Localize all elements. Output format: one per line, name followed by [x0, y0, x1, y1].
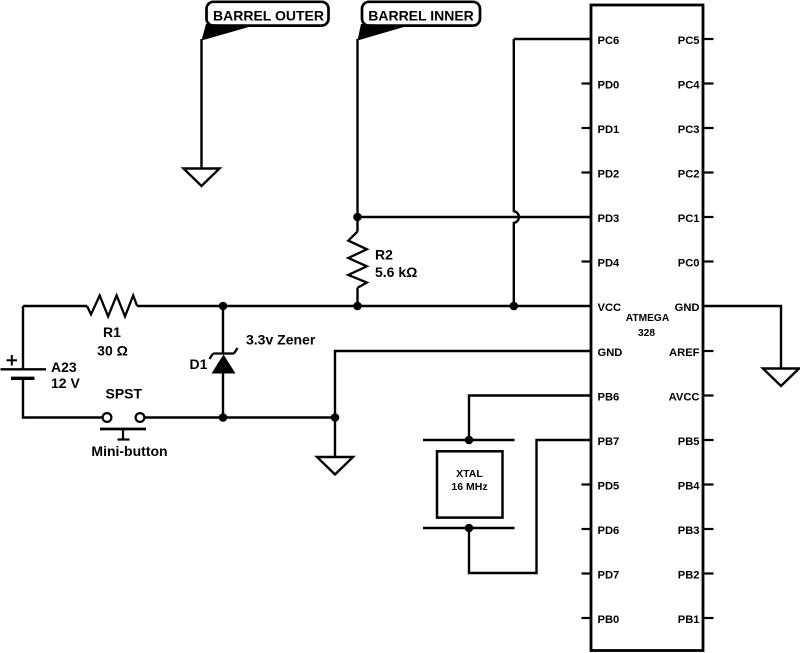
ground (middle) — [317, 457, 353, 475]
svg-text:PC6: PC6 — [598, 35, 620, 47]
svg-text:SPST: SPST — [106, 386, 143, 402]
pin PB3 stub — [703, 528, 714, 530]
svg-text:PD5: PD5 — [598, 481, 620, 493]
wire switch to D1 bottom and GND node — [145, 416, 336, 418]
crystal XTAL — [423, 436, 515, 533]
svg-text:PD7: PD7 — [598, 570, 620, 582]
ground (barrel outer) — [184, 169, 220, 187]
pin PC3 stub — [703, 127, 714, 129]
wire crystal bottom to PB7 — [469, 440, 591, 573]
wire BARREL OUTER to ground — [200, 39, 202, 169]
node PD3 junction dot — [353, 213, 362, 222]
pin PB2 stub — [703, 572, 714, 574]
node GND rail junction — [331, 413, 340, 422]
svg-text:XTAL: XTAL — [456, 468, 483, 480]
svg-text:PD6: PD6 — [598, 525, 620, 537]
svg-text:Mini-button: Mini-button — [91, 443, 167, 459]
pin PD2 stub — [582, 171, 592, 173]
flag BARREL OUTER — [202, 2, 329, 41]
svg-text:PC2: PC2 — [678, 169, 700, 181]
svg-text:D1: D1 — [190, 356, 208, 372]
pin PC5 stub — [703, 38, 714, 40]
pin PD7 stub — [582, 572, 592, 574]
pin AVCC stub — [703, 394, 714, 396]
pin PD4 stub — [582, 260, 592, 262]
wire VCC rail left (battery to R1) — [23, 305, 87, 307]
wire PC6 vertical with hop over PD3 wire — [514, 39, 519, 306]
pin PB1 stub — [703, 617, 714, 619]
pin PC4 stub — [703, 82, 714, 84]
svg-text:PC0: PC0 — [678, 258, 700, 270]
pin PD5 stub — [582, 483, 592, 485]
svg-text:16 MHz: 16 MHz — [451, 481, 487, 493]
svg-text:PB5: PB5 — [678, 436, 700, 448]
wire GND pin to bottom rail — [335, 351, 591, 457]
svg-text:3.3v Zener: 3.3v Zener — [246, 332, 316, 348]
pin PC0 stub — [703, 260, 714, 262]
battery A23 — [1, 355, 81, 391]
svg-text:A23: A23 — [51, 359, 77, 375]
pin PD1 stub — [582, 127, 592, 129]
svg-text:30 Ω: 30 Ω — [97, 343, 128, 359]
svg-text:BARREL INNER: BARREL INNER — [368, 8, 474, 24]
node D1 top junction — [219, 302, 228, 311]
zener diode D1 — [190, 306, 316, 418]
svg-text:AREF: AREF — [669, 347, 700, 359]
pin AREF stub — [703, 350, 714, 352]
svg-text:328: 328 — [638, 328, 655, 339]
svg-text:GND: GND — [675, 302, 700, 314]
svg-text:PB4: PB4 — [678, 481, 701, 493]
wire PB6 to crystal top — [469, 396, 591, 441]
pin PD6 stub — [582, 528, 592, 530]
wire PC6 horizontal — [514, 38, 591, 40]
wire battery bottom — [23, 378, 103, 417]
svg-text:PB7: PB7 — [598, 436, 620, 448]
pin PD0 stub — [582, 82, 592, 84]
pin PB4 stub — [703, 483, 714, 485]
svg-text:PB3: PB3 — [678, 525, 700, 537]
flag BARREL INNER — [358, 2, 481, 41]
svg-text:12 V: 12 V — [51, 375, 80, 391]
resistor R2 — [348, 217, 417, 306]
pin PB0 stub — [582, 617, 592, 619]
svg-text:PD1: PD1 — [598, 124, 620, 136]
svg-text:PD0: PD0 — [598, 80, 620, 92]
wire GND right to ground — [703, 306, 781, 369]
svg-text:PC4: PC4 — [678, 80, 701, 92]
svg-text:AVCC: AVCC — [669, 392, 700, 404]
IC U1 ATMEGA328 — [591, 5, 703, 651]
svg-text:GND: GND — [598, 347, 623, 359]
svg-text:BARREL OUTER: BARREL OUTER — [213, 8, 324, 24]
svg-text:PB0: PB0 — [598, 614, 620, 626]
wire battery top — [22, 306, 24, 369]
wire BARREL INNER down to PD3 node — [356, 39, 358, 217]
node D1 bottom junction — [219, 413, 228, 422]
svg-text:PB6: PB6 — [598, 392, 620, 404]
pin PB5 stub — [703, 439, 714, 441]
svg-text:R2: R2 — [375, 247, 393, 263]
svg-text:PC1: PC1 — [678, 213, 700, 225]
svg-text:PC3: PC3 — [678, 124, 700, 136]
svg-text:VCC: VCC — [598, 302, 622, 314]
switch SPST mini-button — [91, 386, 167, 460]
resistor R1 — [87, 296, 137, 359]
ground (right) — [763, 369, 799, 387]
svg-text:R1: R1 — [103, 324, 121, 340]
svg-text:PD2: PD2 — [598, 169, 620, 181]
svg-text:5.6 kΩ: 5.6 kΩ — [375, 264, 417, 280]
svg-text:PB2: PB2 — [678, 570, 700, 582]
svg-text:PD3: PD3 — [598, 213, 620, 225]
svg-text:PD4: PD4 — [598, 258, 621, 270]
node PC6/VCC junction — [510, 302, 519, 311]
node R2 bottom junction — [353, 302, 362, 311]
pin PC1 stub — [703, 216, 714, 218]
pin PC2 stub — [703, 171, 714, 173]
svg-text:ATMEGA: ATMEGA — [626, 313, 670, 324]
svg-text:PB1: PB1 — [678, 614, 700, 626]
wire PD3 horizontal — [358, 216, 592, 218]
svg-text:PC5: PC5 — [678, 35, 700, 47]
wire VCC rail (R1 to IC VCC) — [137, 305, 591, 307]
